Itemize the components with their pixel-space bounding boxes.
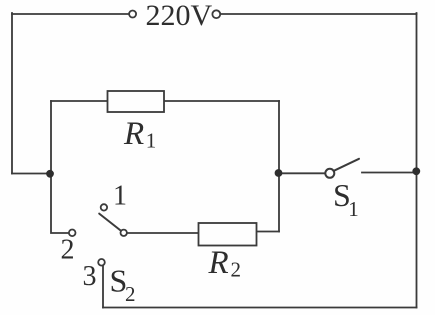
wire right branch vertical through node B <box>278 101 280 232</box>
svg-text:220V: 220V <box>146 0 213 32</box>
switch S2 pivot terminal <box>121 230 127 236</box>
wire R1 right to right branch <box>164 100 279 102</box>
svg-text:1: 1 <box>348 197 359 221</box>
wire mid-left vertical through node A down to contact 2 <box>51 101 69 233</box>
wire top left from supply to left rail <box>12 13 129 15</box>
svg-text:1: 1 <box>146 129 157 153</box>
wire node A to R1 left <box>51 100 108 102</box>
switch S2 contact 2 <box>69 230 76 237</box>
switch S2 blade <box>99 214 121 231</box>
svg-text:2: 2 <box>125 282 136 306</box>
wire node B to switch S1 <box>279 172 325 174</box>
switch S1 pivot terminal <box>325 169 334 178</box>
node A junction dot <box>46 170 54 178</box>
switch S2 contact 1 <box>101 204 107 210</box>
wire S1 blade side to node C <box>362 172 417 174</box>
node B junction dot <box>275 169 283 177</box>
switch S1 blade <box>334 159 359 171</box>
wire S2 pivot to R2 left <box>127 232 198 234</box>
wire contact 3 down to bottom rail <box>102 266 104 308</box>
svg-text:R: R <box>208 245 229 281</box>
wire left rail to node A <box>12 173 50 175</box>
wire right rail vertical <box>416 13 418 308</box>
wire left rail vertical <box>11 13 13 174</box>
resistor R1 <box>108 91 165 112</box>
resistor R2 <box>199 223 257 246</box>
switch S2 contact 3 <box>98 259 105 266</box>
wire top right from supply to right rail <box>221 13 417 15</box>
svg-text:2: 2 <box>61 235 75 266</box>
svg-text:2: 2 <box>231 258 242 282</box>
wire bottom rail <box>103 307 417 309</box>
wire R2 right to right branch vertical <box>257 231 280 233</box>
supply terminal right <box>212 10 220 18</box>
svg-text:1: 1 <box>113 180 127 211</box>
svg-text:3: 3 <box>83 261 97 292</box>
supply terminal left <box>129 11 136 18</box>
svg-text:R: R <box>123 116 144 152</box>
node C junction dot <box>412 167 420 175</box>
